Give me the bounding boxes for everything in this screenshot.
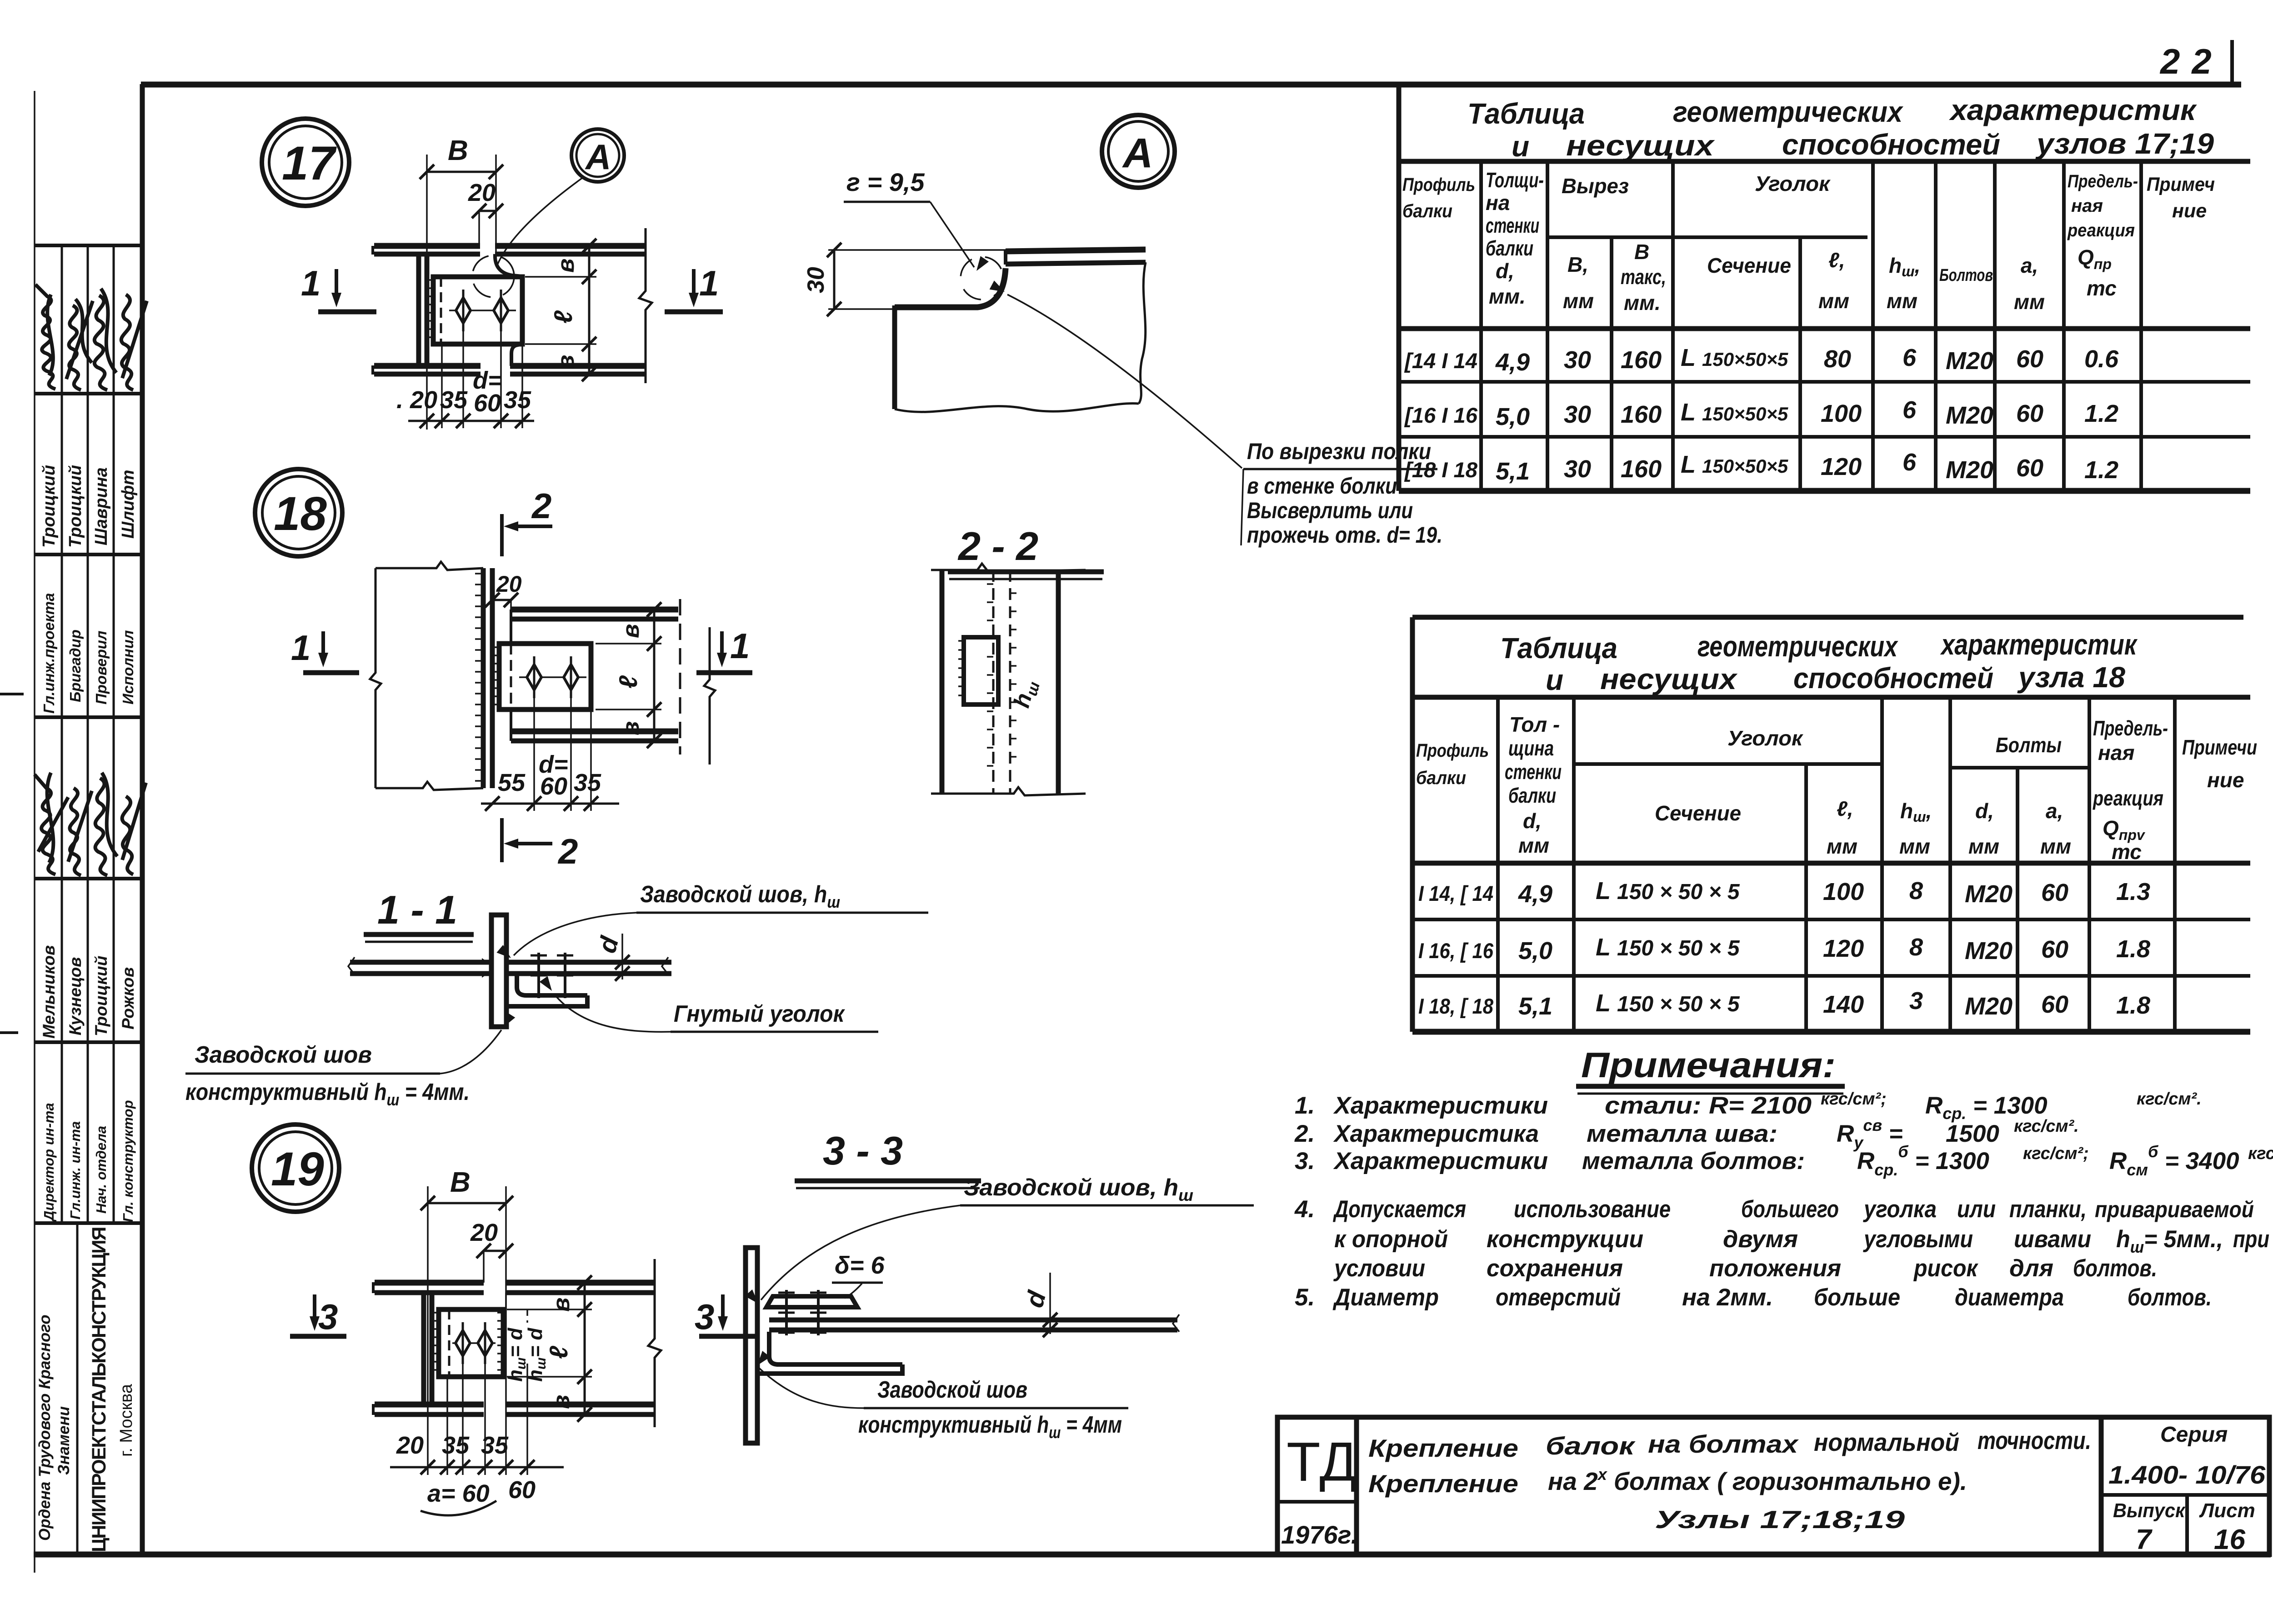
svg-text:160: 160: [1621, 401, 1662, 428]
svg-text:несущих: несущих: [1600, 663, 1738, 695]
svg-text:Толщи-: Толщи-: [1486, 168, 1544, 192]
node 19 right dimension chain: [507, 1275, 592, 1422]
svg-text:hш= 5мм.,: hш= 5мм.,: [2116, 1226, 2223, 1256]
svg-text:Rсмб = 3400: Rсмб = 3400: [2109, 1142, 2239, 1179]
node 19 connection angle plate: [439, 1309, 503, 1377]
table 1: headers: [1402, 168, 2215, 315]
node 18 beam break line: [704, 627, 715, 765]
node 17 flange notch cut: [495, 254, 522, 276]
svg-text:1: 1: [730, 626, 750, 666]
svg-text:в: в: [548, 1298, 575, 1312]
svg-text:М20: М20: [1946, 456, 1993, 484]
svg-text:прожечь отв. d= 19.: прожечь отв. d= 19.: [1247, 522, 1442, 548]
svg-text:способностей: способностей: [1793, 662, 1993, 695]
svg-text:60: 60: [2041, 936, 2068, 963]
svg-text:и: и: [1546, 664, 1563, 696]
node 18 weld serration on support: [475, 574, 483, 781]
node 17 right dimension chain: [525, 239, 596, 381]
svg-text:Исполнил: Исполнил: [120, 630, 136, 705]
svg-text:Профиль: Профиль: [1416, 740, 1489, 761]
node 17 dimension 20: [468, 179, 503, 248]
svg-text:Примечи: Примечи: [2182, 735, 2257, 759]
node 18 bottom dimension chain: [481, 695, 619, 811]
title block: subject text: [1368, 1426, 2091, 1534]
svg-text:балок: балок: [1546, 1432, 1636, 1460]
node 18 section mark 2 bottom: [502, 818, 578, 871]
svg-text:болтов.: болтов.: [2128, 1284, 2212, 1311]
node 17 hidden line dashed: [440, 277, 442, 344]
node 18 marker circle: [255, 469, 342, 556]
node 19 dimension 20: [470, 1219, 513, 1283]
svg-text:ℓ,: ℓ,: [1828, 248, 1845, 272]
svg-text:1 - 1: 1 - 1: [377, 887, 457, 932]
svg-text:8: 8: [1909, 934, 1923, 961]
section 2-2 plate: [958, 637, 998, 705]
svg-text:большего: большего: [1741, 1196, 1839, 1223]
svg-text:Гл. конструктор: Гл. конструктор: [120, 1100, 136, 1222]
svg-text:Характеристика: Характеристика: [1333, 1120, 1539, 1147]
svg-text:60: 60: [2016, 400, 2043, 427]
svg-text:L 150×50×5: L 150×50×5: [1681, 399, 1788, 426]
detail A label r=9.5: [844, 168, 989, 274]
svg-text:hш: hш: [1009, 677, 1044, 711]
svg-text:несущих: несущих: [1566, 129, 1715, 162]
svg-text:привариваемой: привариваемой: [2095, 1197, 2254, 1222]
svg-text:60: 60: [540, 773, 567, 800]
stamp column grid: [35, 245, 142, 1554]
svg-text:80: 80: [1824, 345, 1851, 373]
svg-text:Гнутый уголок: Гнутый уголок: [674, 1001, 845, 1027]
svg-text:5,1: 5,1: [1518, 993, 1552, 1020]
svg-text:hш,: hш,: [1889, 254, 1920, 280]
svg-text:Уголок: Уголок: [1727, 726, 1804, 750]
svg-text:160: 160: [1621, 455, 1662, 483]
svg-text:Профиль: Профиль: [1402, 174, 1475, 195]
svg-text:В: В: [450, 1167, 471, 1198]
svg-text:I 14, [ 14: I 14, [ 14: [1418, 881, 1493, 905]
svg-text:а= 60: а= 60: [427, 1480, 490, 1507]
svg-text:Знамени: Знамени: [55, 1406, 73, 1475]
svg-text:1: 1: [291, 628, 310, 668]
svg-text:Высверлить или: Высверлить или: [1247, 498, 1413, 523]
svg-text:точности.: точности.: [1978, 1426, 2091, 1454]
svg-text:на 2мм.: на 2мм.: [1682, 1284, 1773, 1311]
svg-text:hш,: hш,: [1900, 799, 1932, 825]
detail A dashed circle on notch: [961, 257, 1003, 300]
svg-text:при: при: [2233, 1226, 2269, 1253]
svg-text:1.2: 1.2: [2084, 456, 2118, 484]
svg-text:18: 18: [274, 487, 327, 540]
svg-text:Заводской шов, hш: Заводской шов, hш: [640, 881, 840, 911]
svg-text:на: на: [1486, 191, 1510, 215]
svg-text:к опорной: к опорной: [1334, 1226, 1448, 1253]
notes heading: [1576, 1045, 1845, 1094]
svg-text:35: 35: [574, 769, 601, 796]
svg-text:L 150×50×5: L 150×50×5: [1681, 344, 1788, 371]
detail A torn right edge: [1139, 262, 1146, 404]
svg-text:ℓ,: ℓ,: [1837, 797, 1853, 820]
node 17 connection angle plate: [433, 277, 522, 344]
detail A web left edge: [892, 305, 897, 409]
section 3-3 delta label: [832, 1252, 885, 1298]
detail A leader to note: [990, 280, 1243, 545]
svg-text:1976г.: 1976г.: [1281, 1520, 1358, 1549]
node 18 bolt axis line: [519, 676, 586, 678]
svg-text:Тол -: Тол -: [1509, 713, 1560, 736]
section 2-2 bottom cap: [931, 787, 1086, 795]
svg-text:стенки: стенки: [1505, 760, 1562, 784]
svg-text:металла болтов:: металла болтов:: [1582, 1148, 1805, 1174]
svg-text:диаметра: диаметра: [1955, 1284, 2064, 1311]
svg-text:Сечение: Сечение: [1655, 801, 1741, 825]
table 1: title: [1467, 94, 2214, 163]
svg-text:металла шва:: металла шва:: [1587, 1120, 1777, 1147]
svg-text:0.6: 0.6: [2084, 345, 2119, 373]
svg-text:кгс/см²: кгс/см²: [2248, 1144, 2273, 1163]
svg-text:5,0: 5,0: [1518, 937, 1552, 964]
svg-text:ние: ние: [2172, 200, 2207, 222]
note 4: [1294, 1196, 2269, 1282]
svg-text:30: 30: [1564, 401, 1591, 428]
svg-text:1.: 1.: [1295, 1092, 1315, 1119]
svg-text:Заводской шов, hш: Заводской шов, hш: [964, 1174, 1193, 1204]
node 18 bolt 2: [564, 656, 578, 698]
svg-text:22: 22: [2159, 41, 2223, 81]
section 1-1 right beam web: [506, 957, 671, 974]
svg-text:30: 30: [803, 267, 829, 293]
svg-text:120: 120: [1823, 935, 1864, 962]
svg-text:35: 35: [440, 386, 468, 414]
node 19 bottom flange right: [506, 1404, 655, 1414]
svg-text:17: 17: [282, 137, 337, 190]
svg-text:такс,: такс,: [1621, 265, 1666, 289]
node 17 bottom dimension chain: [396, 328, 534, 428]
svg-text:20: 20: [470, 1219, 498, 1246]
svg-text:2: 2: [531, 486, 551, 526]
svg-text:мм: мм: [1563, 289, 1594, 313]
section 3-3 leader weld top: [745, 1174, 1254, 1307]
node 18 weld hatching on plate: [493, 647, 501, 705]
section 2-2 weld seam lines: [987, 570, 1016, 794]
svg-text:Диаметр: Диаметр: [1332, 1284, 1439, 1311]
stamp signatures block 1: [35, 285, 147, 390]
node 19 top flange left: [373, 1282, 484, 1293]
section 1-1 label: [364, 887, 474, 942]
svg-text:балки: балки: [1486, 236, 1533, 260]
svg-text:Примечания:: Примечания:: [1581, 1045, 1836, 1085]
svg-text:М20: М20: [1965, 993, 2013, 1020]
svg-text:3: 3: [318, 1297, 338, 1337]
node 19 dimension B: [421, 1167, 513, 1475]
svg-text:Таблица: Таблица: [1500, 632, 1617, 665]
node 17 bolt 2: [494, 290, 508, 331]
note 3: [1295, 1142, 2273, 1179]
svg-text:Заводской шов: Заводской шов: [877, 1377, 1027, 1403]
section 3-3 bent angle: [757, 1332, 902, 1374]
svg-text:мм: мм: [2040, 834, 2071, 858]
svg-text:щина: щина: [1508, 736, 1554, 760]
svg-text:М20: М20: [1965, 937, 2013, 964]
svg-text:мм: мм: [1899, 834, 1930, 858]
node 18 beam bottom flange: [511, 731, 678, 741]
node 18 supporting member outline: [370, 562, 483, 790]
svg-text:6: 6: [1903, 344, 1917, 371]
svg-text:Предель-: Предель-: [2093, 716, 2168, 740]
table 2: data rows: [1418, 877, 2150, 1020]
svg-text:тс: тс: [2112, 840, 2142, 864]
table 2: title: [1500, 628, 2138, 696]
svg-text:в: в: [618, 624, 644, 638]
note 1: [1295, 1089, 2202, 1123]
node 17 bottom flange right beam: [510, 344, 646, 374]
svg-text:мм: мм: [1518, 834, 1549, 857]
section 2-2 top cap: [931, 564, 1086, 572]
svg-text:мм: мм: [1818, 289, 1849, 313]
svg-text:геометрических: геометрических: [1673, 95, 1903, 128]
svg-text:больше: больше: [1814, 1284, 1900, 1311]
detail A torn bottom edge: [895, 404, 1139, 412]
svg-text:19: 19: [271, 1143, 324, 1196]
svg-text:1500: 1500: [1946, 1120, 1999, 1147]
node 17 right beam break line: [639, 228, 652, 383]
svg-text:6: 6: [1903, 449, 1917, 476]
svg-text:60: 60: [2041, 879, 2068, 906]
section 3-3 bolt 2: [810, 1290, 826, 1335]
svg-text:d,: d,: [1523, 809, 1542, 833]
svg-text:В,: В,: [1567, 253, 1588, 276]
svg-text:балки: балки: [1402, 200, 1452, 221]
svg-text:Троицкий: Троицкий: [92, 956, 110, 1036]
svg-text:Болты: Болты: [1996, 733, 2062, 757]
svg-text:ℓ: ℓ: [544, 1345, 573, 1359]
svg-text:Нач. отдела: Нач. отдела: [93, 1126, 109, 1214]
node 17 top flange right beam: [495, 246, 646, 254]
stamp roles row 1: [40, 593, 136, 714]
table 1: data rows: [1404, 344, 2119, 485]
svg-text:конструктивный hш = 4мм: конструктивный hш = 4мм: [858, 1412, 1122, 1442]
svg-text:М20: М20: [1965, 880, 2013, 908]
svg-text:Допускается: Допускается: [1333, 1196, 1466, 1223]
node 17 dimension B: [420, 135, 503, 430]
svg-text:мм: мм: [1827, 834, 1857, 858]
svg-text:кгс/см²;: кгс/см²;: [1821, 1089, 1887, 1109]
svg-text:А: А: [585, 137, 611, 177]
svg-text:использование: использование: [1514, 1196, 1671, 1223]
section 3-3 support plate: [746, 1248, 757, 1443]
node 19 hw=d labels: [504, 1309, 549, 1475]
detail A web cut with rounded corner: [895, 268, 1006, 307]
svg-text:Крепление: Крепление: [1368, 1434, 1518, 1462]
node 17 detail-A marker circle: [571, 129, 624, 182]
svg-text:По вырезки полки: По вырезки полки: [1247, 439, 1431, 464]
svg-text:L 150×50×5: L 150×50×5: [1681, 451, 1788, 478]
section 2-2 label: [948, 524, 1104, 579]
svg-text:140: 140: [1823, 991, 1864, 1018]
node 17 detail boundary dashed circle: [472, 255, 514, 297]
node 17 bottom flange left beam: [373, 365, 481, 375]
node 18 section mark 2 top: [502, 486, 552, 556]
svg-text:Троицкий: Троицкий: [40, 465, 59, 548]
svg-text:геометрических: геометрических: [1697, 630, 1898, 663]
svg-text:кгс/см².: кгс/см².: [2014, 1117, 2079, 1136]
svg-text:[14 I 14: [14 I 14: [1404, 349, 1477, 373]
svg-text:конструктивный hш = 4мм.: конструктивный hш = 4мм.: [185, 1079, 470, 1109]
svg-text:Предель-: Предель-: [2068, 171, 2138, 191]
svg-text:L 150 × 50 × 5: L 150 × 50 × 5: [1596, 877, 1740, 904]
svg-text:3: 3: [1909, 987, 1923, 1014]
svg-text:5,1: 5,1: [1496, 458, 1530, 485]
section 1-1 leader bent angle: [540, 976, 878, 1032]
node 19 section mark 3 left: [290, 1294, 346, 1337]
svg-text:35: 35: [442, 1432, 470, 1459]
svg-text:Гл.инж. ин-та: Гл.инж. ин-та: [67, 1121, 83, 1219]
svg-text:4,9: 4,9: [1518, 880, 1552, 908]
section 3-3 plank d=6: [766, 1296, 857, 1307]
svg-text:планки,: планки,: [2009, 1196, 2087, 1223]
svg-text:[16 I 16: [16 I 16: [1404, 403, 1478, 427]
svg-text:угловыми: угловыми: [1862, 1226, 1973, 1253]
svg-text:Крепление: Крепление: [1368, 1469, 1518, 1498]
fold mark upper: [0, 693, 24, 695]
svg-text:Болтов: Болтов: [1939, 266, 1993, 285]
svg-text:Рожков: Рожков: [119, 967, 137, 1029]
svg-text:5.: 5.: [1295, 1284, 1315, 1311]
svg-text:кгс/см².: кгс/см².: [2137, 1089, 2202, 1109]
svg-text:ная: ная: [2071, 196, 2103, 216]
section 1-1 leader weld top: [496, 881, 928, 962]
svg-text:г = 9,5: г = 9,5: [846, 168, 925, 196]
svg-text:16: 16: [2214, 1524, 2245, 1555]
node 19 section mark 3 right: [695, 1294, 756, 1337]
node 19 hidden dashed line: [448, 1309, 451, 1377]
svg-text:Гл.инж.проекта: Гл.инж.проекта: [40, 593, 57, 714]
svg-text:мм: мм: [2014, 290, 2045, 314]
svg-text:1.8: 1.8: [2116, 992, 2150, 1019]
node 18 support flange double line: [483, 568, 492, 788]
node 18 beam cut dashed line: [679, 599, 681, 755]
node 18 right dimension chain: [596, 602, 661, 748]
node 19 supporting I-beam web: [424, 1293, 432, 1404]
svg-text:1: 1: [301, 263, 320, 303]
svg-text:Директор ин-та: Директор ин-та: [41, 1103, 57, 1222]
table 1: grid: [1399, 85, 2250, 491]
svg-text:60: 60: [2041, 991, 2068, 1018]
svg-text:Rусв =: Rусв =: [1837, 1116, 1903, 1152]
section 3-3 beam flange: [769, 1314, 1179, 1332]
section 1-1 bent angle: [506, 976, 587, 1006]
note 5: [1295, 1284, 2212, 1311]
svg-text:Шлифт: Шлифт: [119, 470, 138, 539]
node 18 beam end line: [510, 610, 512, 741]
svg-text:160: 160: [1621, 346, 1662, 374]
svg-text:отверстий: отверстий: [1496, 1284, 1621, 1311]
node 19 bolt axis line: [452, 1342, 496, 1344]
svg-text:Шаврина: Шаврина: [92, 467, 111, 545]
svg-text:1.8: 1.8: [2116, 935, 2150, 963]
svg-text:ние: ние: [2207, 768, 2244, 792]
svg-text:стали: R= 2100: стали: R= 2100: [1605, 1092, 1812, 1119]
svg-text:А: А: [1122, 130, 1153, 176]
svg-text:узла 18: узла 18: [2017, 661, 2125, 694]
svg-text:2: 2: [557, 831, 578, 871]
svg-text:2 - 2: 2 - 2: [957, 524, 1038, 569]
svg-text:ℓ: ℓ: [614, 675, 642, 689]
node 19 top flange right: [506, 1283, 655, 1293]
svg-text:δ= 6: δ= 6: [835, 1252, 885, 1279]
svg-text:Лист: Лист: [2199, 1499, 2255, 1522]
node 19 weld hatching both edges: [433, 1313, 505, 1370]
svg-text:4,9: 4,9: [1495, 349, 1530, 376]
svg-text:и: и: [1512, 130, 1529, 163]
svg-text:1.3: 1.3: [2116, 878, 2150, 905]
node 17 section mark 1 left: [301, 263, 376, 312]
svg-text:35: 35: [504, 386, 531, 414]
svg-text:60: 60: [474, 390, 501, 417]
svg-text:балки: балки: [1416, 767, 1466, 788]
svg-text:7: 7: [2136, 1524, 2153, 1555]
svg-text:4.: 4.: [1294, 1196, 1315, 1223]
svg-text:для: для: [2009, 1255, 2053, 1282]
section 3-3 leader weld bottom: [753, 1351, 1128, 1442]
svg-text:тс: тс: [2087, 276, 2117, 300]
svg-text:I 16, [ 16: I 16, [ 16: [1418, 939, 1494, 963]
svg-text:ЦНИИПРОЕКТСТАЛЬКОНСТРУКЦИЯ: ЦНИИПРОЕКТСТАЛЬКОНСТРУКЦИЯ: [88, 1227, 110, 1552]
svg-text:мм.: мм.: [1489, 285, 1526, 308]
section 2-2 support left edge: [940, 570, 945, 794]
svg-text:уголка: уголка: [1862, 1196, 1937, 1223]
section 1-1 leader weld bottom: [185, 1012, 515, 1109]
node 17 left beam web end: [419, 254, 427, 366]
svg-text:3.: 3.: [1295, 1148, 1315, 1174]
svg-text:условии: условии: [1333, 1255, 1425, 1282]
svg-text:100: 100: [1823, 878, 1864, 905]
node 19 bottom flange left: [373, 1404, 484, 1415]
node 17 leader from A circle to notch: [497, 177, 583, 266]
svg-text:Характеристики: Характеристики: [1333, 1092, 1548, 1119]
svg-text:2.: 2.: [1294, 1120, 1315, 1147]
stamp roles row 2: [41, 1100, 136, 1222]
section 3-3 label: [795, 1128, 981, 1188]
svg-text:Характеристики: Характеристики: [1333, 1148, 1548, 1174]
svg-text:6: 6: [1903, 396, 1917, 424]
node 18 section mark 1 right: [696, 626, 752, 673]
section 1-1 left beam web: [348, 957, 491, 978]
section 1-1 support plate: [491, 915, 506, 1027]
svg-text:60: 60: [2016, 455, 2043, 482]
node 18 beam top flange: [511, 610, 678, 619]
svg-text:реакция: реакция: [2092, 786, 2163, 810]
table 2: grid: [1412, 617, 2250, 1032]
section 1-1 bolt 2: [557, 953, 573, 998]
svg-text:1.400- 10/76: 1.400- 10/76: [2108, 1460, 2266, 1489]
svg-text:Qпрv: Qпрv: [2103, 816, 2146, 843]
svg-text:М20: М20: [1946, 402, 1993, 429]
svg-text:Заводской шов: Заводской шов: [195, 1042, 372, 1068]
node 17 marker circle: [262, 119, 349, 206]
svg-text:В: В: [448, 135, 468, 166]
svg-text:Примеч: Примеч: [2147, 174, 2215, 195]
detail A marker circle: [1102, 115, 1175, 188]
title block grid: [1277, 1417, 2269, 1554]
svg-text:Qпр: Qпр: [2078, 245, 2112, 272]
svg-text:швами: швами: [2014, 1226, 2091, 1253]
svg-text:мм: мм: [1968, 834, 1999, 858]
svg-text:Троицкий: Троицкий: [66, 465, 85, 548]
node 19 bolt 1: [456, 1322, 470, 1364]
node 17 bolt axis line: [449, 310, 516, 311]
svg-text:на болтах: на болтах: [1648, 1430, 1799, 1458]
svg-text:способностей: способностей: [1782, 128, 2000, 161]
